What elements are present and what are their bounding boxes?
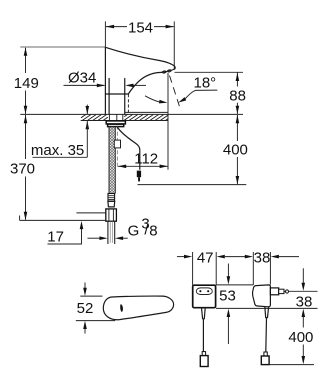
dimension 112 line	[118, 165, 168, 167]
dimension 154 extension line left	[104, 21, 106, 47]
aerator ring 2	[167, 69, 171, 72]
dimension 400 right arrow down	[302, 356, 306, 364]
dimension 112 arrow left	[118, 165, 126, 169]
dimension O34 leader line right	[134, 84, 147, 86]
dimension 88 arrow up	[236, 73, 240, 81]
faucet spout underside at aerator	[162, 69, 176, 73]
extension line vertical right of faucet	[167, 73, 169, 170]
dimension 400 right arrow up	[302, 309, 306, 317]
nut top datum line	[76, 212, 105, 214]
dimension 53 ext top	[216, 284, 253, 286]
euro socket outline	[196, 288, 212, 295]
hose end datum line left	[20, 216, 106, 221]
hose collar	[108, 201, 115, 207]
spray angle dashed line	[170, 76, 180, 107]
G3/8 tube	[108, 221, 115, 244]
svg-text:38: 38	[254, 250, 271, 267]
svg-text:8: 8	[149, 223, 157, 240]
dimension 53 arrow up	[227, 309, 231, 344]
front view cable plug	[200, 352, 208, 367]
dimension O34 arrow left	[97, 84, 105, 88]
shank through counter middle	[116, 114, 118, 120]
spray angle arrow left	[159, 100, 168, 105]
spray angle arrow right	[177, 97, 186, 104]
top view sensor window	[120, 304, 123, 312]
spray angle arc right	[185, 90, 217, 99]
dimension 400 top figure arrow down	[236, 176, 240, 184]
dimension 149 extension line top	[20, 46, 105, 48]
svg-text:370: 370	[10, 160, 35, 177]
dimension 149 arrow down	[24, 106, 28, 114]
dimension O34 arrow right	[125, 84, 133, 88]
dimension O34 leader line left	[64, 84, 105, 86]
dimension 53 arrow down	[227, 264, 231, 285]
faucet base cylinder left edge	[108, 79, 110, 115]
dimension 154 arrow right	[166, 25, 174, 29]
counter top line	[20, 113, 243, 115]
power supply side view body	[253, 285, 271, 307]
sensor cable plug	[137, 171, 141, 182]
dimension 38 top arrow right	[271, 255, 279, 259]
counter hatching	[81, 115, 168, 121]
dimension 38 top line right	[279, 256, 299, 258]
socket pin hole left	[199, 290, 201, 292]
dimension 17 arrow left	[99, 236, 107, 240]
aerator ring 1	[162, 71, 166, 74]
svg-text:149: 149	[14, 75, 39, 92]
dimension 370 line	[25, 115, 27, 220]
svg-text:18°: 18°	[194, 74, 217, 91]
svg-text:38: 38	[296, 293, 313, 310]
dimension 53 ext bottom	[216, 307, 318, 309]
svg-text:400: 400	[223, 142, 248, 159]
dimension max35 lower line	[86, 121, 88, 157]
dimension 370 arrow down	[24, 212, 28, 220]
faucet body top edge	[105, 47, 174, 66]
dimension 88 arrow down	[236, 106, 240, 114]
sensor cable curve	[118, 128, 140, 170]
top view faucet outline	[103, 296, 173, 320]
svg-text:47: 47	[197, 250, 214, 267]
socket pin hole right	[207, 290, 209, 292]
basin step top line	[125, 111, 168, 113]
dimension 149 arrow up	[24, 48, 28, 56]
dimension 52 ext bottom	[76, 320, 115, 322]
dimension 47 ext left	[192, 252, 194, 285]
hose braid left edge	[108, 127, 110, 194]
hose ferrule	[108, 194, 115, 202]
faucet body bottom line	[105, 93, 128, 95]
dimension 154 arrow left	[106, 25, 114, 29]
mounting flange under counter	[106, 121, 125, 127]
dimension 88 line	[236, 72, 238, 114]
hose hex nut	[106, 209, 117, 221]
dimension 400 right line	[302, 317, 304, 356]
dimension 154 line	[106, 26, 174, 28]
front view strain relief	[202, 308, 206, 319]
dimension 400 top figure line	[236, 115, 238, 184]
side view plug pin	[284, 290, 289, 293]
spout tip level line	[175, 71, 244, 73]
shank through counter left	[108, 114, 110, 120]
dimension 52 arrow up	[83, 321, 87, 334]
front view cable	[202, 319, 204, 352]
dimension 52 ext top	[80, 295, 102, 297]
dimension max35 upper line	[86, 105, 88, 115]
dimension 17 line left	[88, 237, 100, 239]
faucet body back edge	[104, 47, 106, 114]
svg-text:17: 17	[47, 228, 64, 245]
dimension 112 arrow right	[160, 165, 168, 169]
svg-text:112: 112	[134, 150, 158, 167]
counter bottom line	[81, 120, 168, 122]
faucet spout underside curve	[128, 72, 161, 94]
svg-text:G: G	[128, 223, 140, 240]
shank through counter right	[122, 114, 124, 120]
dimension 47-38 shared line	[225, 256, 245, 258]
side view strain relief	[265, 307, 269, 318]
svg-text:52: 52	[77, 300, 94, 317]
dimension 38 top arrow left	[245, 255, 253, 259]
svg-text:88: 88	[229, 87, 246, 104]
dimension 17 arrow right	[115, 236, 123, 240]
hose end datum line	[138, 184, 247, 186]
dimension max35 underline	[33, 156, 88, 158]
side view plug barrel	[279, 289, 284, 293]
faucet base hidden edge dashed	[127, 94, 129, 114]
dimension 154 extension line right	[173, 21, 175, 70]
dimension 38 right ext top	[289, 290, 318, 292]
dimension 17 leader underline	[48, 229, 82, 245]
side view plug collar	[270, 288, 278, 295]
dimension 17 line right	[123, 237, 128, 239]
dimension 47 arrow left	[184, 255, 192, 259]
dimension 400 top figure arrow up	[236, 115, 240, 123]
dimension 17 leader arrow up	[80, 221, 84, 229]
power supply front view box	[193, 285, 216, 308]
faucet base cylinder right edge	[124, 79, 126, 115]
dimension 149 line	[25, 48, 27, 114]
dimension 47 line left	[177, 256, 184, 258]
dimension 47 ext right	[215, 252, 217, 285]
svg-text:400: 400	[288, 329, 313, 346]
svg-text:max. 35: max. 35	[31, 142, 84, 159]
dimension 52 arrow down	[83, 283, 87, 296]
dimension max35 arrow up	[86, 121, 90, 129]
hose clip box	[114, 140, 120, 148]
dimension 38 top ext left	[252, 252, 254, 285]
dimension max35 arrow down	[86, 106, 90, 114]
svg-text:154: 154	[128, 19, 153, 36]
svg-text:Ø34: Ø34	[68, 69, 96, 86]
svg-text:53: 53	[219, 288, 236, 305]
dimension 38 right arrow down	[302, 268, 306, 291]
dimension 370 arrow up	[24, 115, 28, 123]
hose braid right edge	[114, 127, 116, 194]
dimension 47 arrow right	[217, 255, 225, 259]
side view cable	[265, 318, 268, 352]
dimension 38 top ext right	[269, 252, 271, 285]
spray angle arc left	[145, 96, 160, 102]
faucet spout tip front edge	[173, 66, 176, 69]
side view cable plug	[261, 352, 269, 365]
cable end datum line	[269, 364, 314, 366]
centerline below counter	[116, 126, 118, 169]
flexible hose braid	[109, 127, 115, 194]
